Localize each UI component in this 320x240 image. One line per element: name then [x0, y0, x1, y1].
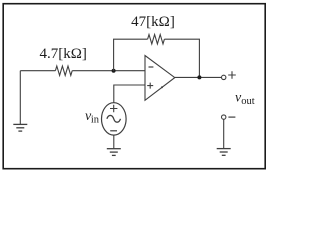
terminal − output: [222, 115, 226, 119]
wire − terminal to ground: [223, 119, 225, 148]
wire op-amp output: [175, 76, 222, 78]
source Vin (AC): [102, 103, 127, 135]
svg-text:out: out: [241, 96, 255, 107]
ground (below source): [107, 149, 121, 156]
wire feedback loop: [114, 39, 200, 77]
wire source to ground: [113, 135, 115, 148]
ground (output): [217, 149, 231, 156]
wire non-inverting input to source: [114, 85, 145, 103]
resistor R2 47[kΩ]: [148, 35, 165, 44]
ground (left, input): [13, 124, 27, 131]
svg-text:in: in: [91, 115, 100, 126]
wire input rail to resistor R1: [20, 70, 55, 72]
op-amp U1: [145, 56, 175, 101]
resistor R1 4.7[kΩ]: [55, 66, 72, 75]
wire left vertical from input rail to ground: [19, 71, 21, 124]
terminal + output: [222, 75, 226, 79]
wire R1 to op-amp inverting input: [72, 70, 145, 72]
node junction (inverting input / feedback): [112, 69, 116, 73]
svg-text:4.7[kΩ]: 4.7[kΩ]: [40, 46, 87, 62]
node output junction: [197, 75, 201, 79]
svg-text:47[kΩ]: 47[kΩ]: [131, 14, 175, 30]
